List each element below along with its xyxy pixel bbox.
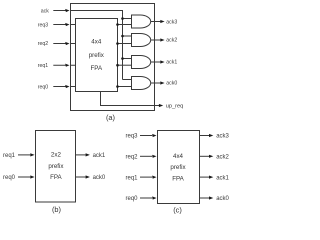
junction dot grant3 (a) — [116, 23, 119, 26]
arrowhead ack3 output (c) — [209, 134, 213, 137]
wire ack2 output (c) — [200, 155, 210, 157]
svg-text:ack3: ack3 — [216, 134, 229, 140]
svg-text:req0: req0 — [38, 85, 48, 91]
AND gate G1 (ack3) — [132, 15, 151, 28]
wire req3 input (c) — [140, 135, 152, 137]
arrowhead req1 input (a) — [65, 64, 69, 67]
wire req0 input (b) — [18, 176, 30, 178]
svg-text:(a): (a) — [106, 113, 115, 122]
svg-text:req2: req2 — [38, 41, 48, 47]
svg-text:ack: ack — [41, 8, 49, 14]
arrowhead req3 input (c) — [152, 134, 156, 137]
wire ack3 output (a) — [151, 21, 161, 23]
wire req2 input (a) — [53, 43, 75, 45]
svg-text:ack0: ack0 — [166, 81, 177, 87]
svg-text:req0: req0 — [3, 175, 16, 181]
wire up_req output (a) — [101, 92, 160, 106]
AND gate G4 (ack0) — [132, 77, 151, 90]
arrowhead ack0 output (b) — [86, 175, 90, 178]
svg-text:req3: req3 — [38, 23, 48, 29]
wire ack internal route (a) — [71, 11, 123, 80]
arrowhead ack input (a) — [65, 9, 69, 12]
arrowhead req1 input (b) — [30, 153, 34, 156]
svg-text:ack1: ack1 — [93, 153, 106, 159]
wire req0 input (c) — [140, 197, 152, 199]
wire ack0 output (c) — [200, 197, 210, 199]
svg-text:up_req: up_req — [166, 104, 183, 110]
svg-text:prefix: prefix — [48, 163, 64, 170]
svg-text:req0: req0 — [125, 196, 138, 202]
wire ack0 output (b) — [76, 176, 86, 178]
junction dot ack-G1 (a) — [121, 17, 124, 20]
wire ack1 output (a) — [151, 61, 161, 63]
svg-text:FPA: FPA — [172, 176, 184, 183]
wire ack2 output (a) — [151, 39, 161, 41]
wire ack1 output (b) — [76, 154, 86, 156]
wire ack1 output (c) — [200, 176, 210, 178]
outer box of arbiter cell (a) — [71, 4, 155, 111]
arrowhead req0 input (a) — [65, 85, 69, 88]
wire req1 input (a) — [53, 64, 75, 66]
svg-text:ack2: ack2 — [216, 155, 229, 161]
svg-text:(c): (c) — [173, 205, 182, 214]
arrowhead req2 input (a) — [65, 42, 69, 45]
svg-text:prefix: prefix — [89, 52, 105, 59]
svg-text:req1: req1 — [38, 63, 48, 69]
svg-text:req3: req3 — [125, 134, 138, 140]
arrowhead req0 input (c) — [152, 196, 156, 199]
wire grant2 stub from FPA to G2 (a) — [118, 43, 132, 45]
svg-text:FPA: FPA — [50, 174, 62, 181]
wire req2 input (c) — [140, 155, 152, 157]
wire req3 input (a) — [53, 24, 75, 26]
wire ack branch to gate G3 (a) — [123, 58, 132, 60]
wire req0 input (a) — [53, 86, 75, 88]
wire ack3 output (c) — [200, 135, 210, 137]
wire ack input (a) — [53, 10, 66, 12]
AND gate G2 (ack2) — [132, 34, 151, 47]
junction dot grant0 (a) — [116, 85, 119, 88]
arrowhead ack1 output (a) — [160, 60, 164, 63]
arrowhead ack2 output (c) — [209, 155, 213, 158]
arrowhead ack1 output (b) — [86, 153, 90, 156]
svg-text:ack1: ack1 — [166, 60, 177, 66]
svg-text:req1: req1 — [125, 175, 138, 181]
4x4 prefix FPA block U1 (a) — [76, 19, 118, 92]
wire ack branch to gate G4 (a) — [123, 79, 132, 81]
svg-text:4x4: 4x4 — [91, 39, 102, 46]
arrowhead ack2 output (a) — [160, 38, 164, 41]
arrowhead ack0 output (c) — [209, 196, 213, 199]
svg-text:4x4: 4x4 — [173, 153, 184, 160]
arrowhead up_req output (a) — [159, 104, 163, 107]
wire req1 input (c) — [140, 176, 152, 178]
svg-text:2x2: 2x2 — [51, 152, 62, 159]
junction dot ack-G3 (a) — [121, 57, 124, 60]
arrowhead ack3 output (a) — [160, 20, 164, 23]
svg-text:ack0: ack0 — [216, 196, 229, 202]
junction dot grant2 (a) — [116, 42, 119, 45]
junction dot grant1 (a) — [116, 64, 119, 67]
wire req1 input (b) — [18, 154, 30, 156]
arrowhead req2 input (c) — [152, 155, 156, 158]
wire grant0 stub from FPA to G4 (a) — [118, 86, 132, 88]
AND gate G3 (ack1) — [132, 56, 151, 69]
svg-text:FPA: FPA — [91, 65, 103, 72]
svg-text:(b): (b) — [52, 205, 61, 214]
arrowhead ack1 output (c) — [209, 176, 213, 179]
svg-text:prefix: prefix — [170, 164, 186, 171]
arrowhead req1 input (c) — [152, 176, 156, 179]
arrowhead ack0 output (a) — [160, 81, 164, 84]
arrowhead req3 input (a) — [65, 23, 69, 26]
junction dot ack-G2 (a) — [121, 35, 124, 38]
wire ack0 output (a) — [151, 82, 161, 84]
svg-text:ack3: ack3 — [166, 19, 177, 25]
svg-text:ack2: ack2 — [166, 37, 177, 43]
svg-text:ack1: ack1 — [216, 175, 229, 181]
wire ack branch to gate G2 (a) — [123, 35, 132, 37]
2x2 prefix FPA block U2 (b) — [36, 131, 76, 203]
svg-text:req2: req2 — [125, 155, 138, 161]
4x4 prefix FPA block U3 (c) — [158, 131, 200, 204]
svg-text:req1: req1 — [3, 153, 16, 159]
wire grant3 stub from FPA to G1 (a) — [118, 24, 132, 26]
arrowhead req0 input (b) — [30, 175, 34, 178]
wire grant1 stub from FPA to G3 (a) — [118, 64, 132, 66]
svg-text:ack0: ack0 — [93, 175, 106, 181]
wire ack branch to gate G1 (a) — [123, 18, 132, 20]
